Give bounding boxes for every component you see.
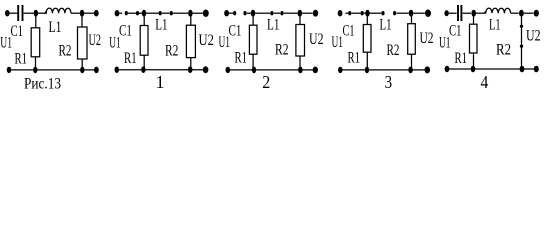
svg-text:U2: U2: [526, 28, 541, 45]
svg-text:U1: U1: [0, 34, 12, 51]
resistor R2: [408, 24, 416, 55]
svg-text:C1: C1: [11, 23, 24, 40]
wire: [71, 12, 80, 14]
node A': [365, 67, 369, 74]
wire R2 bottom leg: [411, 54, 413, 70]
node A: [365, 10, 369, 17]
svg-text:U1: U1: [332, 34, 344, 51]
node A: [471, 10, 476, 17]
svg-text:C1: C1: [119, 23, 132, 40]
wire: [193, 12, 203, 14]
wire: [84, 12, 94, 14]
svg-text:R2: R2: [165, 42, 178, 59]
capacitor C1 (degenerate: gap, wire, dot, wire, dot): [345, 12, 348, 14]
svg-text:R2: R2: [275, 42, 289, 59]
terminal output top-right: [203, 10, 209, 17]
wire bottom rail: [230, 69, 313, 71]
wire: [24, 12, 34, 14]
terminal output top-right: [94, 10, 99, 17]
terminal input top-left: [115, 10, 120, 16]
resistor R2: [186, 25, 195, 57]
resistor R1: [31, 28, 40, 57]
wire: [302, 12, 313, 14]
node A': [141, 66, 145, 73]
capacitor C1 (degenerate: wire, dot, gap, dot, wire): [229, 12, 233, 14]
wire R1 bottom leg: [35, 57, 37, 70]
terminal bottom-right: [203, 66, 209, 73]
wire: [255, 12, 270, 14]
wire bottom rail: [119, 69, 203, 71]
terminal input top-left: [338, 10, 343, 16]
terminal input top-left: [5, 10, 10, 16]
node B: [519, 10, 524, 17]
node A: [142, 10, 146, 17]
terminal bottom-right: [425, 66, 431, 73]
wire: [173, 12, 188, 14]
node A: [251, 10, 256, 17]
terminal output top-right: [313, 10, 318, 17]
terminal bottom-left: [7, 67, 12, 73]
terminal bottom-left: [338, 67, 343, 73]
resistor R1: [363, 25, 371, 53]
svg-text:U2: U2: [199, 32, 214, 49]
svg-text:L1: L1: [267, 17, 280, 34]
wire bottom rail: [449, 68, 534, 70]
svg-text:R2: R2: [59, 42, 72, 59]
wire: [449, 12, 457, 14]
terminal input top-left: [444, 10, 448, 16]
wire: [524, 12, 534, 14]
svg-text:U1: U1: [219, 34, 231, 51]
svg-text:2: 2: [262, 72, 270, 92]
terminal bottom-left: [226, 67, 231, 73]
svg-text:Рис.13: Рис.13: [24, 75, 61, 92]
wire R2 top leg: [299, 15, 301, 25]
svg-text:R1: R1: [124, 50, 137, 67]
svg-text:R1: R1: [15, 50, 28, 67]
svg-text:U2: U2: [309, 31, 324, 48]
svg-text:L1: L1: [489, 17, 501, 34]
resistor R1: [470, 24, 478, 53]
capacitor C1: [457, 5, 459, 21]
wire: [463, 12, 472, 14]
svg-text:R1: R1: [235, 50, 248, 67]
wire: [370, 12, 382, 14]
wire R2 bottom leg: [81, 59, 83, 70]
svg-text:4: 4: [481, 72, 489, 92]
resistor R2 (degenerate shunt: wire with two dots): [521, 15, 523, 69]
wire: [9, 12, 17, 14]
svg-text:3: 3: [385, 72, 393, 92]
node B': [520, 66, 525, 73]
capacitor C1 (degenerate: stub, dot, wire, dot): [119, 12, 122, 14]
capacitor C1: [17, 5, 19, 21]
inductor L1 (degenerate: dot, gap, dot): [381, 11, 384, 15]
terminal output top-right: [534, 10, 539, 17]
node B': [188, 66, 193, 73]
node B: [409, 10, 414, 17]
terminal bottom-right: [534, 66, 539, 73]
wire: [476, 12, 486, 14]
wire R2 bottom leg: [190, 58, 192, 70]
terminal bottom-right: [94, 67, 99, 74]
terminal bottom-left: [115, 67, 120, 73]
wire R1 top leg: [252, 15, 254, 25]
node B': [408, 67, 413, 74]
wire R1 bottom leg: [366, 52, 368, 70]
wire: [364, 12, 366, 14]
svg-text:L1: L1: [380, 16, 392, 33]
node A': [33, 67, 37, 74]
wire bottom rail: [343, 69, 426, 71]
resistor R1: [249, 25, 257, 54]
wire: [146, 12, 159, 14]
svg-text:U2: U2: [89, 32, 102, 49]
node A': [471, 66, 476, 73]
wire R2 bottom leg: [299, 56, 301, 70]
wire: [413, 12, 425, 14]
svg-text:L1: L1: [49, 19, 62, 36]
inductor L1: [484, 8, 510, 13]
node B': [80, 67, 84, 74]
svg-text:R1: R1: [455, 50, 468, 67]
resistor R2: [296, 25, 305, 57]
terminal bottom-left: [445, 66, 450, 72]
wire: [284, 12, 298, 14]
wire R1 bottom leg: [473, 53, 475, 69]
svg-text:1: 1: [156, 72, 165, 92]
terminal bottom-right: [313, 67, 318, 74]
resistor R1: [140, 26, 148, 56]
svg-text:R2: R2: [496, 42, 511, 59]
wire bottom rail: [11, 69, 95, 71]
wire: [38, 12, 47, 14]
wire: [511, 12, 519, 14]
svg-text:C1: C1: [449, 23, 462, 40]
wire: [396, 12, 408, 14]
svg-text:C1: C1: [343, 23, 355, 40]
node B: [188, 10, 193, 17]
svg-text:C1: C1: [229, 22, 242, 39]
wire R2 top leg: [81, 15, 83, 27]
inductor L1 (degenerate: dot, wire, dot): [159, 11, 162, 15]
terminal input top-left: [224, 10, 229, 16]
svg-text:L1: L1: [155, 17, 167, 34]
wire R1 top leg: [35, 15, 37, 28]
wire R1 bottom leg: [143, 55, 145, 69]
node A: [34, 10, 38, 17]
inductor L1: [45, 8, 71, 13]
wire R1 top leg: [143, 15, 145, 26]
node B: [298, 10, 303, 17]
svg-text:R2: R2: [387, 42, 400, 59]
svg-text:R1: R1: [348, 50, 361, 67]
node A': [252, 67, 256, 74]
resistor R2: [78, 27, 88, 59]
wire R1 top leg: [473, 15, 475, 24]
wire: [139, 12, 142, 14]
node B': [298, 67, 303, 74]
inductor L1 (degenerate: dot, wire, dot): [270, 11, 273, 15]
wire R1 bottom leg: [252, 54, 254, 70]
node B: [80, 10, 84, 17]
wire R2 top leg: [411, 15, 413, 24]
wire R1 top leg: [366, 15, 368, 25]
wire R2 top leg: [190, 15, 192, 25]
svg-text:U2: U2: [420, 30, 434, 47]
terminal output top-right: [425, 10, 431, 17]
